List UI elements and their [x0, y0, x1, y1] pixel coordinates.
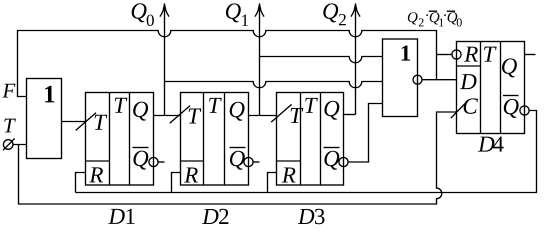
svg-text:T: T: [208, 93, 223, 118]
svg-text:C: C: [462, 94, 478, 119]
svg-text:D: D: [201, 204, 219, 226]
svg-text:R: R: [281, 163, 296, 188]
flip-flop D4 box: [457, 42, 525, 134]
flip-flop D2 box: [181, 93, 249, 186]
svg-text:T: T: [187, 103, 202, 128]
dynamic input slash at D4 C: [451, 102, 466, 118]
node Q2 vertical with output arrow: [351, 4, 360, 115]
U2 output bubble: [413, 75, 422, 84]
svg-text:R: R: [183, 162, 198, 187]
svg-text:F: F: [2, 78, 16, 102]
overbar of D4 Qbar label: [503, 95, 519, 97]
overbar of D1 Qbar label: [133, 147, 149, 149]
wire Q0 row to NOR input (jumps over Q1,Q2 verticals): [165, 82, 383, 88]
wire Q1 row to NOR input (jumps over Q2 vertical): [260, 57, 383, 63]
svg-text:2: 2: [418, 15, 424, 29]
svg-text:Q: Q: [322, 0, 339, 24]
D1 inverted output bubble: [149, 157, 158, 166]
wire feedback net F: top wire with jumps over Q0,Q1,Q2 verticals, down right side to gate output: [18, 31, 437, 97]
svg-text:0: 0: [146, 11, 155, 30]
svg-text:1: 1: [400, 41, 412, 66]
dynamic input slash at D1 T: [76, 113, 96, 131]
svg-text:T: T: [483, 42, 498, 67]
svg-text:T: T: [289, 103, 304, 128]
svg-text:D: D: [108, 204, 126, 226]
D4 Q output stub: [525, 54, 536, 56]
D2 R input wire: [172, 173, 181, 193]
svg-text:T: T: [113, 93, 128, 118]
wire reset net: D4 Qbar to R inputs of D1,D2,D3: [76, 111, 537, 193]
D4 Qbar output bubble: [520, 106, 529, 115]
svg-text:R: R: [463, 42, 478, 67]
svg-text:1: 1: [241, 11, 250, 30]
D2 Qbar stub: [253, 161, 260, 163]
svg-text:Q: Q: [225, 0, 242, 24]
D3 R input wire: [268, 173, 277, 193]
gate U2 (NOR) box: [383, 39, 418, 117]
dynamic input slash at D3 T: [271, 104, 291, 122]
D3 inverted output bubble: [339, 157, 348, 166]
svg-text:D: D: [297, 204, 315, 226]
flip-flop D1 box: [86, 93, 154, 186]
svg-text:3: 3: [314, 204, 326, 226]
svg-text:Q: Q: [323, 146, 340, 171]
D3 Q output wire to Q2 node: [344, 114, 356, 116]
wire clock net: T terminal to U1 and bottom run to D4 C input with jump over reset line: [13, 112, 457, 204]
gate U1 (AND, left): [27, 79, 62, 159]
D2 inverted output bubble: [244, 157, 253, 166]
input terminal T: [3, 140, 13, 150]
D4 R input bubble: [452, 50, 461, 59]
D1 R input wire: [76, 173, 86, 193]
svg-text:Q: Q: [132, 146, 149, 171]
overbar of D3 Qbar label: [324, 147, 340, 149]
svg-text:Q: Q: [501, 54, 518, 79]
wire U2 output to D4 D input: [422, 79, 457, 81]
svg-text:Q: Q: [132, 97, 149, 122]
overbar of Q0 term in net label: [447, 10, 455, 12]
node Q0 vertical with output arrow: [160, 4, 169, 116]
svg-text:1: 1: [43, 81, 56, 108]
svg-text:R: R: [88, 162, 103, 187]
svg-text:2: 2: [338, 10, 347, 29]
wire D3 Qbar to NOR input: [348, 104, 383, 163]
svg-text:1: 1: [124, 204, 136, 226]
wire branch to D4 R input: [437, 54, 453, 56]
svg-text:Q: Q: [130, 0, 147, 24]
D1 Q output wire to D2 T input: [154, 115, 181, 117]
overbar of Q1 term in net label: [429, 10, 437, 12]
svg-text:4: 4: [492, 132, 504, 157]
svg-text:T: T: [3, 113, 16, 137]
svg-text:0: 0: [456, 15, 462, 29]
wire U1 output to D1 T input: [62, 121, 86, 123]
svg-text:Q: Q: [229, 146, 246, 171]
svg-text:D: D: [459, 69, 477, 94]
svg-text:Q: Q: [407, 10, 418, 26]
flip-flop D3 box: [277, 93, 344, 186]
overbar of D2 Qbar label: [230, 147, 246, 149]
dynamic input slash at D2 T: [170, 106, 190, 124]
D1 Qbar stub: [158, 161, 165, 163]
svg-text:Q: Q: [228, 97, 245, 122]
svg-text:T: T: [93, 110, 108, 135]
D2 Q output wire to D3 T input: [249, 115, 277, 117]
svg-text:2: 2: [218, 204, 230, 226]
svg-text:T: T: [304, 93, 319, 118]
svg-text:Q: Q: [323, 96, 340, 121]
node Q1 vertical with output arrow: [255, 4, 264, 116]
svg-text:Q: Q: [502, 94, 519, 119]
